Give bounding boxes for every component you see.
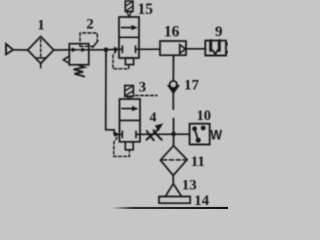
wire 16 to nozzle 9: [186, 48, 206, 50]
valve 15 exhaust stub: [125, 58, 133, 65]
svg-text:3: 3: [139, 79, 147, 95]
wire valve 15 to amplifier 16: [139, 48, 160, 50]
valve 15 body (3/2 valve): [119, 17, 139, 58]
svg-text:16: 16: [164, 24, 180, 41]
regulator 2 pilot dashed box: [80, 33, 98, 48]
svg-text:11: 11: [191, 154, 205, 170]
junction node A: [104, 48, 109, 53]
valve 3 solenoid: [125, 86, 134, 100]
svg-text:14: 14: [194, 193, 210, 209]
svg-text:10: 10: [196, 108, 211, 124]
filter 11 (diamond): [160, 146, 187, 176]
valve 3 body (3/2 valve): [120, 99, 141, 142]
air inlet source triangle: [6, 44, 13, 55]
wire filter to regulator: [54, 49, 70, 51]
wire valve 3 out through throttle to junction B: [140, 133, 190, 135]
valve 15 solenoid: [125, 1, 133, 17]
valve 3 exhaust stub: [125, 142, 133, 150]
filter 1 (diamond with dashed element and water drain): [28, 37, 54, 68]
check valve 17: [167, 81, 180, 94]
wire filter 11 to nozzle 13: [172, 175, 174, 183]
regulator 2 (pressure reducing valve): [63, 44, 88, 77]
wire junction B down to filter 11: [173, 134, 175, 146]
nozzle unit 9: [205, 41, 228, 56]
wire regulator to junction: [89, 49, 106, 51]
amplifier 16: [160, 41, 186, 55]
svg-text:2: 2: [86, 17, 94, 33]
junction node B: [171, 132, 176, 137]
svg-text:17: 17: [184, 77, 200, 93]
wire junction to valve 15 with arrowhead: [106, 47, 120, 52]
nozzle 13 (cone): [165, 184, 181, 197]
throttle valve 4: [147, 123, 164, 140]
page rule artifact bottom: [112, 207, 228, 209]
valve 3 pilot dashed line: [114, 137, 130, 156]
svg-text:13: 13: [182, 177, 197, 193]
svg-text:4: 4: [150, 111, 157, 126]
svg-text:9: 9: [215, 24, 223, 40]
wire 17 down to junction (with gap): [172, 93, 174, 134]
pressure switch 10: [190, 124, 210, 145]
wire junction down to valve 3 inlet: [106, 50, 120, 137]
tank 14: [159, 197, 190, 204]
svg-text:W: W: [210, 127, 222, 142]
wire inlet to filter: [13, 49, 28, 51]
valve 15 pilot dashed line: [113, 51, 129, 69]
valve 3 pilot dashed to right: [136, 95, 158, 97]
svg-text:1: 1: [37, 18, 45, 34]
svg-text:15: 15: [137, 1, 153, 18]
wire 16 down to check valve 17: [172, 55, 174, 81]
